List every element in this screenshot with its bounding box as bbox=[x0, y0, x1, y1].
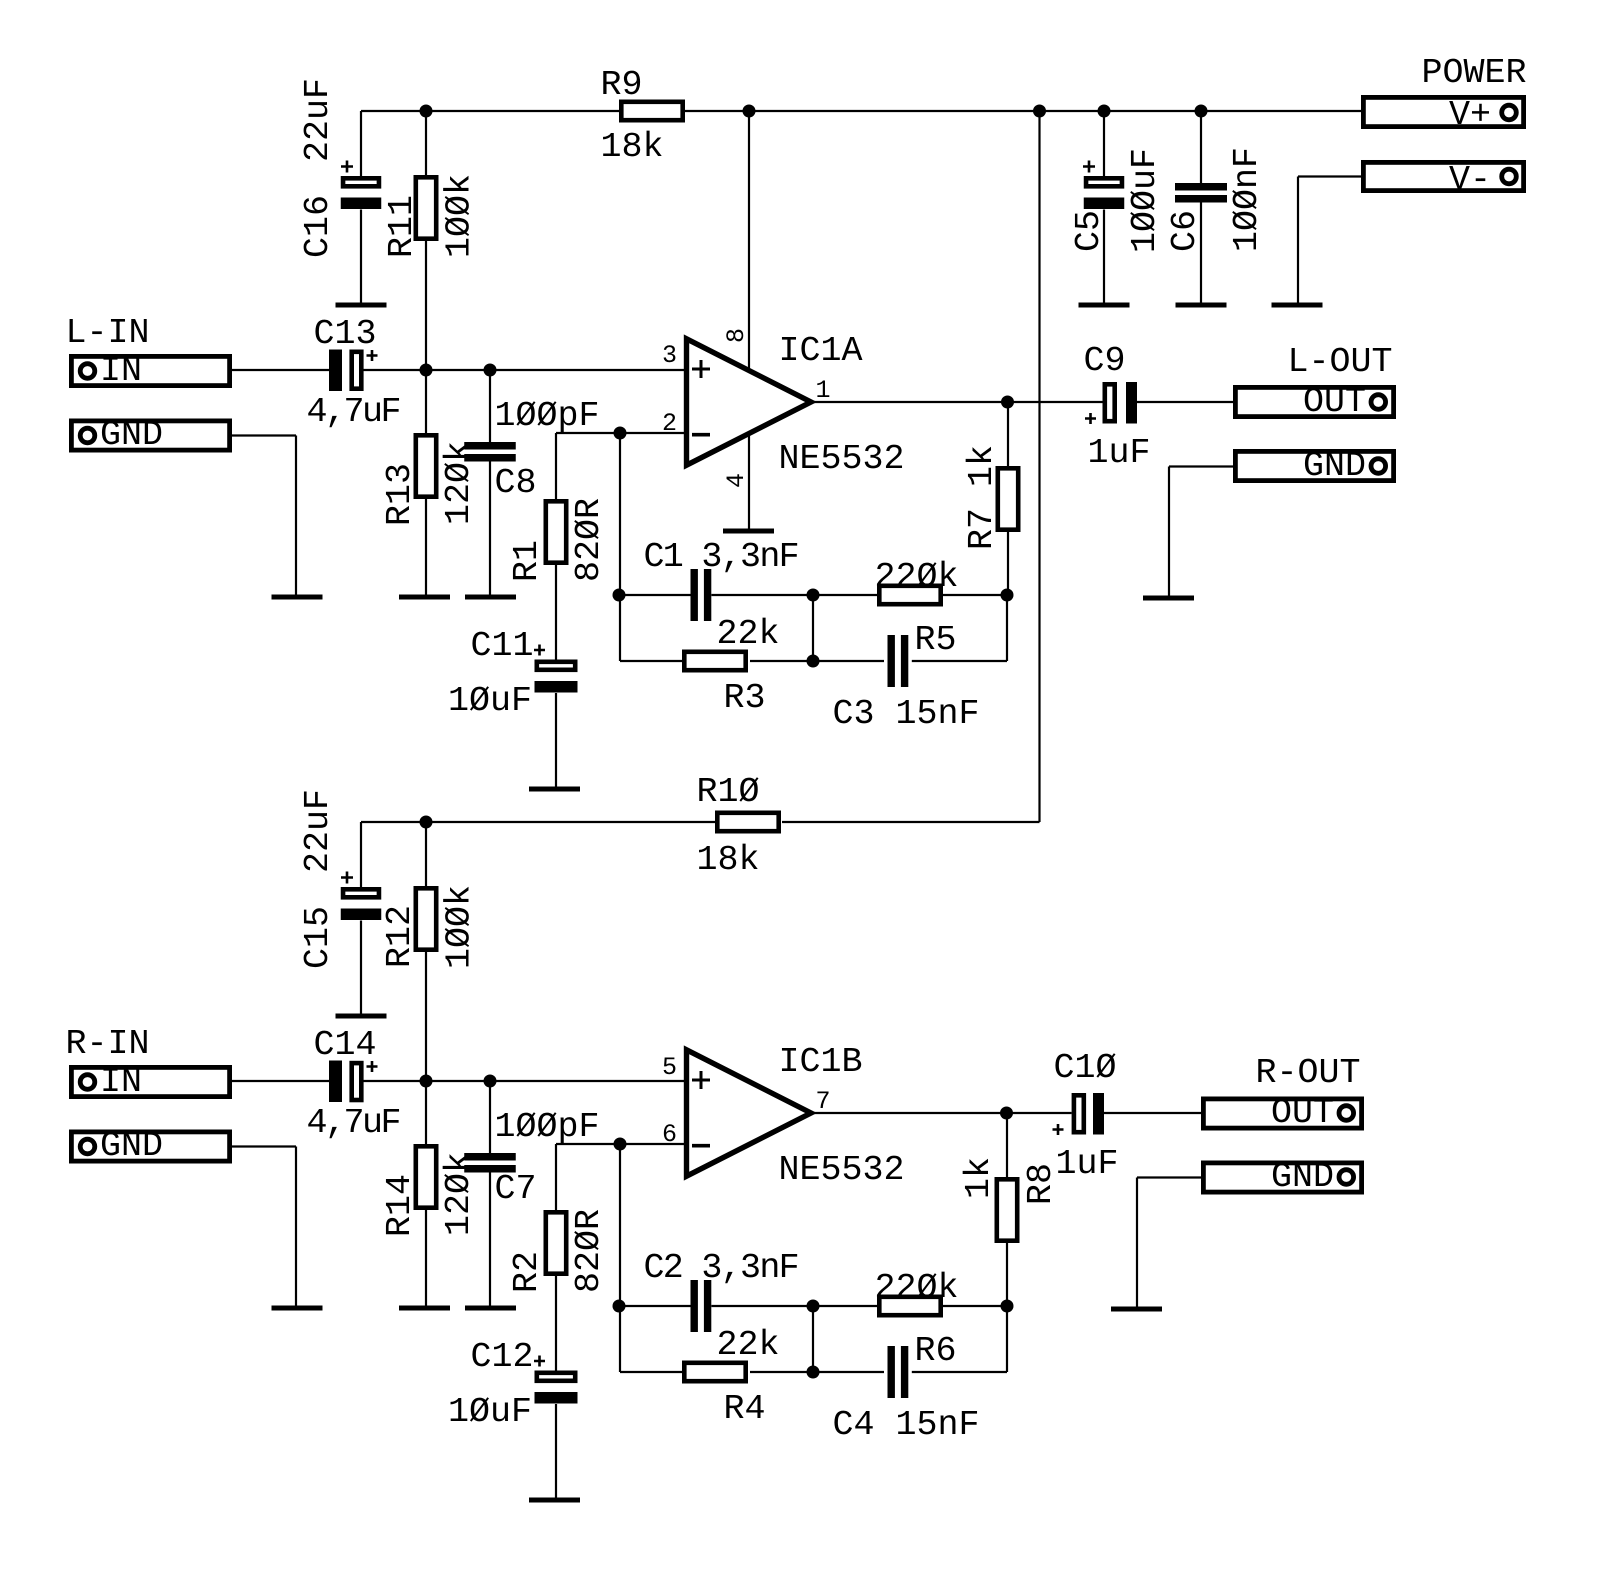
svg-text:22Øk: 22Øk bbox=[875, 557, 959, 597]
svg-text:82ØR: 82ØR bbox=[569, 498, 609, 582]
capacitor C9 1uF bbox=[1105, 384, 1115, 421]
resistor R10 bbox=[717, 813, 778, 831]
wire R-OUT gnd v bbox=[1136, 1178, 1138, 1310]
ground R-OUT ground bbox=[1111, 1307, 1162, 1312]
svg-text:1ØØnF: 1ØØnF bbox=[1227, 147, 1267, 252]
svg-text:18k: 18k bbox=[697, 840, 760, 880]
wire fb bot a bbox=[620, 660, 682, 662]
svg-text:1k: 1k bbox=[959, 1157, 999, 1199]
wire opamp out bbox=[814, 401, 1103, 403]
wire fbR left vertical bbox=[619, 1144, 621, 1372]
wire C6 bottom lead bbox=[1200, 203, 1202, 306]
connector L-IN IN bbox=[71, 356, 229, 385]
wire R7 bottom lead bbox=[1007, 532, 1009, 595]
wire fb left vertical bbox=[619, 433, 621, 661]
wire R2 top lead bbox=[555, 1144, 557, 1210]
ground C8 ground bbox=[465, 595, 516, 600]
capacitor C3 15nF bbox=[888, 635, 895, 687]
svg-text:R-IN: R-IN bbox=[66, 1024, 150, 1064]
wire C1Ø to OUT bbox=[1104, 1112, 1201, 1114]
svg-text:82ØR: 82ØR bbox=[569, 1209, 609, 1293]
svg-text:1ØØk: 1ØØk bbox=[440, 885, 480, 969]
op-amp IC1A bbox=[687, 339, 812, 465]
junction fb left node bbox=[613, 589, 626, 602]
svg-text:C12: C12 bbox=[471, 1337, 534, 1377]
ground R-IN ground bbox=[272, 1306, 323, 1311]
capacitor C10 1uF bbox=[1074, 1095, 1084, 1132]
svg-text:NE5532: NE5532 bbox=[779, 439, 905, 479]
wire fb top b bbox=[711, 594, 877, 596]
+ mark C14 bbox=[367, 1061, 378, 1072]
wire minus line R bbox=[556, 1143, 684, 1145]
junction minusR/x62Ø bbox=[614, 1138, 627, 1151]
junction out/R7 bbox=[1001, 396, 1014, 409]
wire V- lead h bbox=[1298, 175, 1361, 177]
svg-text:22uF: 22uF bbox=[298, 789, 338, 873]
svg-text:IC1B: IC1B bbox=[779, 1042, 863, 1082]
wire R11 top lead bbox=[425, 111, 427, 175]
wire R-OUT gnd h bbox=[1137, 1176, 1201, 1178]
svg-text:C11: C11 bbox=[471, 626, 534, 666]
+ mark C10 bbox=[1053, 1124, 1064, 1135]
svg-text:C5: C5 bbox=[1069, 210, 1109, 252]
wire L-OUT gnd v bbox=[1168, 467, 1170, 599]
svg-text:R4: R4 bbox=[724, 1389, 766, 1429]
svg-text:7: 7 bbox=[816, 1087, 831, 1116]
wire R8 bottom lead bbox=[1006, 1243, 1008, 1306]
ground V- ground bbox=[1272, 303, 1323, 308]
svg-text:1ØuF: 1ØuF bbox=[448, 1392, 532, 1432]
capacitor C14 4,7uF bbox=[329, 1061, 342, 1103]
connector R-OUT OUT bbox=[1203, 1099, 1361, 1128]
svg-text:R6: R6 bbox=[915, 1331, 957, 1371]
connector POWER V+ bbox=[1363, 97, 1523, 126]
capacitor C7 1ØØpF bbox=[464, 1153, 516, 1161]
ground C12 ground bbox=[529, 1498, 580, 1503]
connector R-IN GND bbox=[71, 1132, 229, 1161]
wire C16 bottom lead bbox=[360, 210, 362, 306]
svg-text:3: 3 bbox=[662, 341, 677, 370]
junction fbR right node bbox=[1001, 1300, 1014, 1313]
+ input mark IC1A bbox=[692, 360, 710, 378]
svg-text:C7: C7 bbox=[495, 1169, 537, 1209]
capacitor C4 15nF bbox=[888, 1346, 895, 1398]
capacitor C5 1ØØuF bbox=[1086, 178, 1122, 186]
junction R1Øline/R12 bbox=[420, 816, 433, 829]
junction rail/C6 bbox=[1195, 105, 1208, 118]
svg-text:V+: V+ bbox=[1449, 95, 1491, 135]
svg-text:5: 5 bbox=[662, 1053, 677, 1082]
capacitor C12 1ØuF bbox=[537, 1373, 575, 1381]
ground R13 ground bbox=[399, 595, 450, 600]
svg-text:C13: C13 bbox=[314, 314, 377, 354]
wire L-IN gnd v bbox=[295, 436, 297, 598]
svg-text:22Øk: 22Øk bbox=[875, 1268, 959, 1308]
+ mark C16 bbox=[341, 161, 353, 173]
wire C15 bottom lead bbox=[360, 921, 362, 1017]
svg-text:1uF: 1uF bbox=[1088, 433, 1151, 473]
junction rail/pin8 bbox=[743, 105, 756, 118]
capacitor C15 22uF bbox=[343, 889, 379, 897]
svg-text:2: 2 bbox=[662, 409, 677, 438]
wire C8 bottom lead bbox=[489, 462, 491, 598]
+ mark C9 bbox=[1085, 413, 1096, 424]
svg-text:GND: GND bbox=[100, 1126, 163, 1166]
+ mark C5 bbox=[1083, 161, 1095, 173]
wire R-IN gnd v bbox=[295, 1147, 297, 1309]
svg-text:4: 4 bbox=[722, 473, 751, 488]
ground C11 ground bbox=[529, 787, 580, 792]
svg-text:C2 3,3nF: C2 3,3nF bbox=[644, 1248, 798, 1288]
wire fbR bot b bbox=[750, 1371, 884, 1373]
wire R-IN gnd h bbox=[232, 1145, 296, 1147]
wire R1Ø line a bbox=[361, 821, 715, 823]
wire fbR right vertical bbox=[1006, 1306, 1008, 1372]
ground C6 ground bbox=[1176, 303, 1227, 308]
junction fb right node bbox=[1001, 589, 1014, 602]
svg-text:GND: GND bbox=[100, 415, 163, 455]
wire C7 top lead bbox=[489, 1081, 491, 1153]
wire fbR top c bbox=[943, 1305, 1007, 1307]
resistor R9 bbox=[621, 102, 682, 120]
wire V+ rail bbox=[361, 110, 1361, 112]
wire fb bot c bbox=[912, 660, 1007, 662]
connector L-IN GND bbox=[71, 421, 229, 450]
svg-text:C1Ø: C1Ø bbox=[1054, 1048, 1117, 1088]
ground IC1A pin4 ground bbox=[723, 529, 774, 534]
resistor R4 bbox=[684, 1363, 745, 1381]
wire fb right vertical bbox=[1006, 595, 1008, 661]
junction input/R11/R13 bbox=[420, 364, 433, 377]
wire L-IN gnd h bbox=[232, 434, 296, 436]
wire R12 bottom lead bbox=[425, 952, 427, 1081]
svg-text:12Øk: 12Øk bbox=[439, 1152, 479, 1236]
svg-text:V-: V- bbox=[1449, 160, 1491, 200]
connector L-OUT OUT bbox=[1235, 387, 1393, 416]
wire C6 top lead bbox=[1200, 111, 1202, 183]
connector L-OUT GND bbox=[1235, 451, 1393, 480]
wire R1Ø line b bbox=[782, 821, 1040, 823]
ground L-IN ground bbox=[272, 595, 323, 600]
svg-text:C16: C16 bbox=[298, 195, 338, 258]
wire V+ to R1Ø line bbox=[1038, 111, 1040, 822]
svg-text:R12: R12 bbox=[380, 905, 420, 968]
junction input/C7 bbox=[484, 1075, 497, 1088]
wire fb bot b bbox=[750, 660, 884, 662]
wire R13 top lead bbox=[425, 370, 427, 433]
svg-text:POWER: POWER bbox=[1422, 53, 1527, 93]
wire minus line bbox=[556, 432, 684, 434]
connector R-IN IN bbox=[71, 1067, 229, 1096]
svg-text:R9: R9 bbox=[601, 65, 643, 105]
junction minus/x62Ø bbox=[614, 427, 627, 440]
svg-text:R5: R5 bbox=[915, 620, 957, 660]
svg-text:GND: GND bbox=[1303, 446, 1366, 486]
wire C5 bottom lead bbox=[1103, 210, 1105, 306]
connector R-OUT GND bbox=[1203, 1163, 1361, 1192]
junction rail/R1Ø-drop bbox=[1033, 105, 1046, 118]
svg-text:C9: C9 bbox=[1084, 341, 1126, 381]
junction rail/C5 bbox=[1098, 105, 1111, 118]
wire fbR bot a bbox=[620, 1371, 682, 1373]
wire R7 top lead bbox=[1007, 402, 1009, 466]
wire C9 to OUT bbox=[1137, 401, 1233, 403]
- input mark IC1B bbox=[692, 1144, 710, 1148]
wire fb top c bbox=[943, 594, 1007, 596]
svg-text:GND: GND bbox=[1271, 1157, 1334, 1197]
ground R14 ground bbox=[399, 1306, 450, 1311]
junction fbR mid bottom bbox=[807, 1366, 820, 1379]
wire fbR mid vertical bbox=[812, 1306, 814, 1372]
+ mark C15 bbox=[341, 872, 353, 884]
svg-text:1uF: 1uF bbox=[1056, 1144, 1119, 1184]
wire pin8 bbox=[748, 111, 750, 369]
junction outR/R8 bbox=[1000, 1107, 1013, 1120]
wire fbR top a bbox=[619, 1305, 691, 1307]
wire C5 top lead bbox=[1103, 111, 1105, 176]
wire fb mid vertical bbox=[812, 595, 814, 661]
svg-text:C4 15nF: C4 15nF bbox=[833, 1405, 980, 1445]
op-amp IC1B bbox=[687, 1050, 812, 1176]
connector POWER V- bbox=[1363, 162, 1523, 190]
svg-text:IC1A: IC1A bbox=[779, 331, 863, 371]
capacitor C11 1ØuF bbox=[537, 662, 575, 670]
+ mark C13 bbox=[367, 350, 378, 361]
svg-text:C8: C8 bbox=[495, 463, 537, 503]
wire R1 bottom lead bbox=[555, 565, 557, 660]
svg-text:R14: R14 bbox=[380, 1174, 420, 1237]
junction input/C8 bbox=[484, 364, 497, 377]
svg-text:18k: 18k bbox=[601, 127, 664, 167]
wire C11 bottom lead bbox=[555, 693, 557, 789]
svg-text:1ØØpF: 1ØØpF bbox=[495, 396, 600, 436]
wire C16 top lead bbox=[360, 111, 362, 176]
wire R14 top lead bbox=[425, 1081, 427, 1144]
+ input mark IC1B bbox=[692, 1071, 710, 1089]
wire R8 top lead bbox=[1006, 1113, 1008, 1177]
wire fbR bot c bbox=[912, 1371, 1007, 1373]
junction input/R12/R14 bbox=[420, 1075, 433, 1088]
svg-text:R3: R3 bbox=[724, 678, 766, 718]
svg-text:L-OUT: L-OUT bbox=[1288, 342, 1393, 382]
svg-text:R1Ø: R1Ø bbox=[697, 772, 760, 812]
svg-text:4,7uF: 4,7uF bbox=[307, 1103, 400, 1143]
svg-text:C1 3,3nF: C1 3,3nF bbox=[644, 537, 798, 577]
svg-text:4,7uF: 4,7uF bbox=[307, 392, 400, 432]
resistor R3 bbox=[684, 652, 745, 670]
wire C12 bottom lead bbox=[555, 1404, 557, 1500]
ground C16 ground bbox=[336, 303, 387, 308]
junction fbR mid top bbox=[807, 1300, 820, 1313]
junction rail/R11 bbox=[420, 105, 433, 118]
junction fbR left node bbox=[613, 1300, 626, 1313]
svg-text:1ØØk: 1ØØk bbox=[440, 174, 480, 258]
- input mark IC1A bbox=[692, 433, 710, 437]
svg-text:R11: R11 bbox=[382, 195, 422, 258]
junction fb mid top bbox=[807, 589, 820, 602]
wire fb top a bbox=[619, 594, 691, 596]
capacitor C8 1ØØpF bbox=[464, 442, 516, 450]
resistor R6 bbox=[879, 1297, 940, 1315]
svg-text:L-IN: L-IN bbox=[66, 313, 150, 353]
svg-text:C6: C6 bbox=[1165, 210, 1205, 252]
svg-text:C3 15nF: C3 15nF bbox=[833, 694, 980, 734]
wire C8 top lead bbox=[489, 370, 491, 442]
wire fbR top b bbox=[711, 1305, 877, 1307]
svg-text:8: 8 bbox=[722, 328, 751, 343]
svg-text:R1: R1 bbox=[507, 540, 547, 582]
svg-text:1ØØpF: 1ØØpF bbox=[495, 1107, 600, 1147]
svg-text:R13: R13 bbox=[380, 463, 420, 526]
capacitor C13 4,7uF bbox=[329, 350, 342, 392]
ground C7 ground bbox=[465, 1306, 516, 1311]
svg-text:C15: C15 bbox=[298, 906, 338, 969]
svg-text:OUT: OUT bbox=[1303, 382, 1366, 422]
svg-text:1: 1 bbox=[816, 376, 831, 405]
svg-text:IN: IN bbox=[100, 351, 142, 391]
wire R12 top lead bbox=[425, 822, 427, 886]
wire C14 to pin5 bbox=[364, 1080, 685, 1082]
wire input to C13 bbox=[232, 369, 330, 371]
wire R11 bottom lead bbox=[425, 241, 427, 370]
svg-text:R2: R2 bbox=[507, 1251, 547, 1293]
svg-text:R7 1k: R7 1k bbox=[962, 445, 1002, 550]
capacitor C16 22uF bbox=[343, 178, 379, 186]
wire C15 top lead bbox=[360, 822, 362, 887]
resistor R5 bbox=[879, 586, 940, 604]
svg-text:C14: C14 bbox=[314, 1025, 377, 1065]
wire L-OUT gnd h bbox=[1169, 465, 1233, 467]
wire R1 top lead bbox=[555, 433, 557, 499]
wire R14 bottom lead bbox=[425, 1210, 427, 1308]
svg-text:1ØuF: 1ØuF bbox=[448, 681, 532, 721]
svg-text:OUT: OUT bbox=[1271, 1093, 1334, 1133]
svg-text:NE5532: NE5532 bbox=[779, 1150, 905, 1190]
svg-text:1ØØuF: 1ØØuF bbox=[1125, 148, 1165, 253]
wire R13 bottom lead bbox=[425, 499, 427, 597]
wire input to C14 bbox=[232, 1080, 330, 1082]
ground C5 ground bbox=[1079, 303, 1130, 308]
capacitor C2 3,3nF bbox=[691, 1280, 698, 1332]
svg-text:22uF: 22uF bbox=[298, 78, 338, 162]
svg-text:R-OUT: R-OUT bbox=[1256, 1053, 1361, 1093]
wire opamp outR bbox=[814, 1112, 1072, 1114]
wire V- lead v bbox=[1297, 177, 1299, 306]
wire C7 bottom lead bbox=[489, 1173, 491, 1309]
+ mark C12 bbox=[534, 1356, 545, 1367]
wire R2 bottom lead bbox=[555, 1276, 557, 1371]
wire pin4 bbox=[748, 435, 750, 531]
wire C13 to pin3 bbox=[364, 369, 685, 371]
svg-text:22k: 22k bbox=[717, 1325, 780, 1365]
junction fb mid bottom bbox=[807, 655, 820, 668]
svg-text:12Øk: 12Øk bbox=[439, 441, 479, 525]
svg-text:IN: IN bbox=[100, 1062, 142, 1102]
capacitor C1 3,3nF bbox=[691, 569, 698, 621]
svg-text:6: 6 bbox=[662, 1120, 677, 1149]
ground C15 ground bbox=[336, 1014, 387, 1019]
+ mark C11 bbox=[534, 645, 545, 656]
svg-text:22k: 22k bbox=[717, 614, 780, 654]
capacitor C6 1ØØnF bbox=[1175, 183, 1227, 191]
ground L-OUT ground bbox=[1143, 596, 1194, 601]
